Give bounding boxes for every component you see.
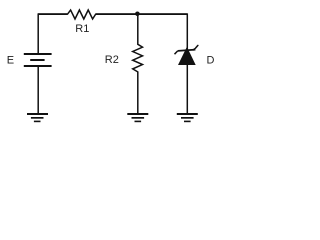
- zener diode D triangle (anode): [178, 47, 196, 65]
- ground (diode branch): [177, 114, 198, 121]
- node junction dot: [135, 12, 140, 17]
- battery E plate long bottom: [24, 65, 52, 67]
- svg-text:R2: R2: [105, 54, 119, 66]
- wire main loop with resistor R1 zigzag: left vertical, top horizontal, right vertical: [38, 10, 187, 54]
- wire battery to ground: [37, 66, 39, 114]
- svg-text:D: D: [207, 55, 215, 67]
- zener diode D right tail: [193, 45, 198, 50]
- wire top horizontal emphasis left of R1: [38, 13, 67, 15]
- wire top horizontal emphasis right of R1: [96, 13, 187, 15]
- wire junction down + resistor R2 zigzag + wire to ground: [133, 14, 143, 114]
- ground (R2 branch): [127, 114, 148, 121]
- wire diode to ground: [186, 64, 188, 114]
- zener diode D cathode bar (slightly tilted): [178, 50, 196, 51]
- battery E plate short middle: [30, 59, 44, 61]
- svg-text:R1: R1: [75, 23, 89, 35]
- zener diode D left tail: [175, 51, 178, 54]
- battery E plate long top: [24, 53, 52, 55]
- svg-text:E: E: [7, 55, 14, 67]
- ground (battery branch): [27, 114, 48, 121]
